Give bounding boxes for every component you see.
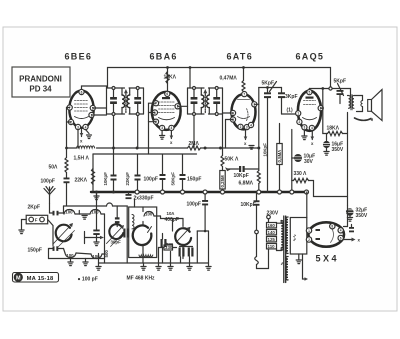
svg-text:100: 100 [65, 210, 73, 215]
svg-text:6AT6: 6AT6 [227, 52, 254, 62]
IFT2 core arrow [204, 94, 206, 113]
svg-text:0,5MΛ: 0,5MΛ [277, 150, 282, 163]
wire 6BA6 cathode side [149, 121, 157, 123]
arrow output x [344, 239, 352, 241]
svg-text:● 100 pF: ● 100 pF [78, 277, 98, 283]
IFT2 coil primary [200, 88, 202, 95]
IFT1 primary cell [107, 87, 125, 89]
trimmer arrow L1 [54, 225, 72, 244]
wire 5X4 output [344, 206, 348, 227]
ground 6BA6 cathode [160, 131, 165, 140]
cap 32uF 350V [346, 208, 354, 216]
cap 16uF 350V [326, 134, 328, 141]
svg-text:10Λ: 10Λ [167, 211, 175, 216]
tube 5X4 internals [331, 227, 334, 243]
resistor bump 100 b [90, 210, 101, 215]
pin 6BE6 bottom2 [83, 124, 88, 129]
svg-text:MF 468 KHz: MF 468 KHz [127, 276, 156, 282]
svg-text:3: 3 [246, 125, 248, 129]
ground 6AT6 [249, 146, 254, 150]
wire bus end down [306, 192, 308, 218]
pin 6AT6 bottom1 [238, 124, 243, 129]
cap 10uF 30V electrolytic [294, 154, 302, 162]
svg-text:2KpF: 2KpF [28, 205, 41, 211]
choke 1,5H in B+ rail [77, 146, 95, 148]
svg-text:8: 8 [331, 225, 333, 229]
arrow heater X 6AT6 [245, 130, 247, 140]
tube 6BE6 cathode [75, 117, 89, 119]
wire 6BA6 grid [149, 103, 157, 154]
grounds bottom row [96, 263, 101, 270]
svg-text:6: 6 [340, 236, 342, 240]
junction dots on rails [112, 147, 115, 150]
wire 6BE6 g3 [67, 121, 72, 123]
svg-text:(1): (1) [287, 108, 293, 114]
svg-text:4: 4 [171, 126, 173, 130]
ground under 16uF [324, 148, 329, 155]
svg-text:2: 2 [240, 125, 242, 129]
svg-text:5: 5 [177, 105, 179, 109]
output transformer windings [349, 96, 351, 109]
wire 6BE6 to IFT1 bottom [92, 114, 107, 116]
secondary block [290, 218, 307, 255]
pot 50K volume [222, 148, 224, 156]
svg-text:10KpF: 10KpF [234, 173, 249, 179]
svg-text:500: 500 [104, 250, 109, 258]
svg-text:5KpF: 5KpF [262, 81, 275, 87]
cap 5X4 [349, 227, 354, 229]
IFT1 core arrow [125, 94, 127, 113]
svg-text:330: 330 [165, 245, 173, 250]
svg-text:7: 7 [69, 106, 71, 110]
tube 6BE6 envelope [69, 91, 93, 128]
tube 6AT6 envelope [232, 94, 256, 129]
pin 5X4 right2 [338, 235, 343, 240]
speaker coil 3ohm [361, 101, 363, 107]
transformer core [283, 216, 285, 283]
svg-text:3KpF: 3KpF [285, 94, 298, 100]
ground mid RF [82, 216, 87, 220]
wire 6AQ5 plate up [308, 89, 310, 90]
svg-text:7: 7 [155, 102, 157, 106]
svg-text:2: 2 [70, 120, 72, 124]
svg-text:7: 7 [243, 92, 245, 96]
junction dot [321, 87, 324, 90]
PRANDONI PD34 title box [12, 67, 70, 97]
arrow heater X 6BA6 [170, 131, 172, 139]
svg-text:6: 6 [81, 90, 83, 94]
svg-text:2: 2 [299, 120, 301, 124]
svg-text:50K Λ: 50K Λ [225, 157, 240, 163]
svg-text:1,5H Λ: 1,5H Λ [74, 156, 90, 162]
svg-text:6: 6 [320, 106, 322, 110]
wire output rail y88 [309, 89, 350, 96]
pin 6AQ5 top [307, 90, 312, 95]
svg-text:1: 1 [91, 113, 93, 117]
svg-text:1: 1 [297, 112, 299, 116]
svg-text:10KpF: 10KpF [262, 143, 267, 157]
svg-text:100: 100 [145, 212, 153, 217]
svg-text:100pF: 100pF [144, 177, 158, 183]
pin 6BE6 bottom1 [75, 124, 80, 129]
junction open circles on bus [135, 190, 139, 194]
speaker lead arc [355, 118, 372, 120]
tube 6AQ5 envelope [298, 91, 321, 131]
svg-text:5: 5 [309, 90, 311, 94]
IFT1 coil secondary [129, 87, 143, 89]
ground phono [19, 230, 24, 234]
ground 6BE6 cathode [86, 130, 92, 139]
svg-text:MA 15-18: MA 15-18 [27, 276, 54, 282]
resistor bump 100 c [65, 253, 76, 258]
cap at 162 [162, 155, 164, 175]
oscillator box [129, 207, 157, 258]
svg-text:50KpF: 50KpF [171, 172, 176, 186]
IFT1 cap primary [113, 88, 115, 97]
variable cap C1 rotor ring [133, 225, 152, 245]
cap tone + switch [338, 84, 344, 96]
wire phono gnd [22, 220, 27, 230]
resistor bump 100 a [64, 210, 75, 215]
verticals RF to bus [96, 192, 98, 206]
pin 6BE6 right1 [90, 105, 95, 110]
svg-text:30V: 30V [304, 159, 314, 165]
wiper arrow [225, 167, 231, 171]
pin 6AT6 top [242, 92, 247, 97]
wire 6BE6 grid left [67, 108, 70, 149]
svg-text:10KpF: 10KpF [241, 202, 256, 208]
cap 150pF [50, 248, 53, 250]
tube 6AQ5 internals [304, 101, 316, 105]
wire plate 6BE6 to IFT1 [82, 86, 107, 92]
cap at 137 [137, 155, 139, 175]
ground transformer [296, 254, 301, 264]
speaker [368, 100, 372, 112]
IFT2 drops [193, 116, 195, 149]
svg-text:10KΛ: 10KΛ [164, 75, 177, 81]
svg-text:22KΛ: 22KΛ [75, 178, 88, 184]
transformer primary winding [281, 221, 283, 251]
svg-text:30pF: 30pF [111, 240, 122, 245]
cap 2x330 below bus [128, 192, 130, 194]
tube 6BA6 plate bar [162, 97, 170, 99]
IFT2 feed [189, 68, 191, 89]
svg-text:6: 6 [166, 92, 168, 96]
transformer LV winding [286, 257, 288, 280]
wire cathode 6AQ5 [291, 130, 293, 193]
svg-text:100: 100 [91, 210, 99, 215]
resistor 0,25M box [220, 171, 225, 190]
svg-text:F: F [35, 218, 38, 223]
osc box winding [139, 255, 153, 257]
svg-text:140: 140 [268, 230, 276, 235]
resistor bump 100 osc [144, 212, 154, 217]
svg-text:160: 160 [268, 223, 276, 228]
pin 5X4 left2 [306, 237, 311, 242]
pin 6AQ5 left [296, 111, 301, 116]
wire grid 6AQ5 [282, 113, 299, 115]
phono input box [26, 215, 48, 224]
switch [255, 257, 259, 265]
mixer mid cluster [96, 214, 98, 230]
resistor 50ohm [66, 148, 68, 158]
cap 100pF left [66, 173, 68, 178]
cap right column B [123, 229, 125, 238]
IFT2 cap secondary [216, 88, 218, 97]
IFT1 coil primary [121, 88, 123, 95]
cap osc pad A [182, 244, 184, 246]
svg-text:∿: ∿ [280, 262, 285, 266]
wire screen feed 6BA6 [167, 68, 169, 92]
pin 6BA6 left3 [153, 119, 158, 124]
wire detector top [259, 87, 282, 89]
IFT1 cap secondary [137, 88, 139, 97]
terminal circle [255, 230, 259, 234]
svg-text:350V: 350V [356, 213, 368, 219]
IFT1 drops [113, 116, 115, 155]
osc coil hatch [132, 215, 134, 229]
svg-text:3: 3 [304, 126, 306, 130]
osc wires [134, 200, 136, 208]
tube 6BE6 grids [75, 101, 89, 112]
svg-text:3: 3 [161, 126, 163, 130]
svg-text:4: 4 [250, 123, 252, 127]
svg-text:6BA6: 6BA6 [150, 52, 178, 62]
osc coil L2 ring [109, 224, 123, 239]
pin 6BE6 top [79, 89, 84, 94]
resistor 10K screen [166, 72, 169, 84]
svg-text:2: 2 [308, 238, 310, 242]
wire 6AT6 grid left [223, 112, 234, 114]
IFT2 coil secondary [209, 87, 223, 89]
cap at 182 [182, 155, 184, 175]
svg-text:350V: 350V [332, 147, 344, 153]
tube 6BA6 cathode [159, 118, 175, 120]
svg-text:2: 2 [155, 120, 157, 124]
svg-text:100: 100 [66, 253, 74, 258]
pin 6AQ5 bottom2 [309, 125, 314, 130]
pin 6BA6 right1 [175, 104, 180, 109]
IFT2 terminals [193, 87, 196, 90]
svg-text:4: 4 [340, 229, 342, 233]
svg-text:3: 3 [77, 125, 79, 129]
transformer HV secondary [286, 217, 288, 253]
arrow mixer [85, 237, 102, 239]
heater arrow bottom [303, 254, 306, 279]
wire 6BE6 heater [81, 130, 83, 137]
svg-text:∿∿: ∿∿ [292, 234, 297, 242]
pin 6BA6 left2 [152, 110, 157, 115]
wires RF box [63, 213, 66, 214]
wire 6AT6 plate [254, 103, 258, 105]
switch slash [270, 82, 277, 92]
svg-text:10KpF: 10KpF [103, 172, 108, 186]
pin 6BE6 left2 [68, 119, 73, 124]
pin 6AQ5 left2 [297, 119, 302, 124]
pin 6AQ5 right [318, 106, 323, 111]
pin 5X4 top [330, 224, 335, 229]
tube 6BA6 grids [159, 102, 175, 113]
svg-text:0,25M: 0,25M [220, 175, 225, 188]
pin 6AT6 right [252, 102, 257, 107]
svg-text:5: 5 [232, 118, 234, 122]
svg-text:100pF: 100pF [41, 179, 55, 185]
svg-text:6,8MΛ: 6,8MΛ [239, 181, 254, 187]
wire 6BE6 AVC drop [92, 154, 94, 192]
ground bus (thick) [91, 191, 307, 193]
svg-text:1: 1 [253, 103, 255, 107]
svg-text:2x330pF: 2x330pF [134, 196, 154, 202]
svg-text:4: 4 [85, 125, 87, 129]
resistor 2M in rail [188, 146, 201, 150]
tube 5X4 envelope [308, 222, 344, 246]
svg-text:PD 34: PD 34 [29, 85, 52, 94]
pin 5X4 left1 [306, 228, 311, 233]
tube 6AT6 internals [238, 100, 250, 121]
svg-text:22KpF: 22KpF [125, 172, 130, 186]
svg-text:330 Λ: 330 Λ [294, 171, 308, 177]
svg-text:5: 5 [92, 106, 94, 110]
svg-text:0,47MΛ: 0,47MΛ [220, 76, 238, 82]
pin 6BA6 left1 [153, 101, 158, 106]
pin 6BA6 top [165, 91, 170, 96]
cap 10KpF wiper [239, 166, 241, 172]
IFT2 primary cell [188, 87, 205, 89]
wire AVC rail y154 [93, 153, 197, 155]
cap osc pad B [188, 248, 190, 257]
arrow heater X 6AQ5 [311, 131, 313, 140]
cap 2K antenna [53, 211, 55, 216]
svg-text:150pF: 150pF [187, 177, 201, 183]
wire antenna down [50, 204, 53, 214]
svg-text:5KpF: 5KpF [334, 79, 347, 85]
wire B+ mid rail y147.5 [67, 147, 77, 149]
pin 6BE6 left1 [67, 105, 72, 110]
pin 6BA6 bottom1 [160, 125, 165, 130]
pin 6AT6 left2 [230, 117, 235, 122]
wire det down [258, 148, 260, 171]
svg-text:6BE6: 6BE6 [65, 52, 93, 62]
tube 6AQ5 plate bar [306, 97, 314, 99]
resistor 330 [294, 178, 309, 182]
resistor 330 boxlet [164, 245, 173, 250]
power feed 10KpF cap [256, 192, 258, 200]
svg-text:110: 110 [268, 244, 276, 249]
wire 6BE6 plate right [93, 107, 107, 109]
wire 6BA6 plate [178, 105, 188, 107]
pin 6AT6 left1 [230, 110, 235, 115]
wire 6AQ5 screen [321, 89, 323, 109]
logo medallion [13, 273, 59, 283]
wire B+ top rail [108, 68, 331, 89]
padder caps [161, 239, 163, 247]
svg-text:1: 1 [154, 111, 156, 115]
cap 3K [281, 88, 283, 93]
pin 5X4 right1 [338, 228, 343, 233]
resistor bump 100 d [91, 254, 102, 259]
resistor 18K [323, 108, 328, 133]
wire B+ down to rectifier [347, 113, 349, 206]
pin 6BE6 right2 [89, 112, 94, 117]
variable cap C2 rotor ring [175, 228, 191, 245]
svg-text:18KΛ: 18KΛ [327, 126, 340, 132]
svg-text:2MΛ: 2MΛ [189, 141, 200, 147]
antenna coil L1 ring [56, 225, 72, 242]
resistor 0,47M grid 6AT6 [243, 68, 245, 81]
pin 6AT6 bottom2 [244, 125, 249, 130]
svg-text:100pF: 100pF [187, 202, 201, 208]
svg-text:PRANDONI: PRANDONI [19, 75, 62, 84]
bottom rail RF [49, 258, 105, 260]
pin 6AT6 bottom3 [248, 122, 253, 127]
wire 6AT6 diode [226, 119, 234, 121]
ground 6AQ5 [302, 130, 307, 140]
grounds below bus [94, 194, 99, 200]
svg-text:5X4: 5X4 [316, 254, 340, 264]
svg-text:150pF: 150pF [28, 248, 42, 254]
cap at 112 [113, 155, 115, 175]
svg-text:M: M [16, 276, 21, 282]
pin 6BA6 bottom2 [169, 125, 174, 130]
svg-text:50Λ: 50Λ [49, 165, 59, 171]
ground 32uF [347, 215, 352, 221]
RF right column cap [115, 217, 120, 219]
tube 6BA6 envelope [152, 92, 181, 130]
svg-text:4: 4 [311, 126, 313, 130]
cap 100pF below bus [204, 194, 206, 200]
cap 5K coupling [264, 92, 271, 94]
resistor 0,5M vertical box [279, 124, 281, 144]
ground mixer [94, 242, 99, 246]
svg-text:6AQ5: 6AQ5 [296, 52, 325, 62]
wire 6BA6 g3 [149, 112, 155, 114]
antenna [49, 195, 51, 204]
IFT2 cap primary [193, 88, 195, 97]
resistor 22K AVC [92, 169, 95, 185]
wire 6BE6 cathode drop [77, 130, 79, 149]
svg-text:125: 125 [268, 237, 276, 242]
arrow heater X 6BE6 [80, 133, 84, 137]
voltage selector boxes [267, 223, 277, 228]
IFT1 terminals [112, 87, 115, 90]
pin 6AQ5 bottom1 [302, 125, 307, 130]
svg-text:6: 6 [232, 111, 234, 115]
svg-text:1: 1 [308, 229, 310, 233]
tube 6AQ5 cathode [303, 118, 317, 120]
